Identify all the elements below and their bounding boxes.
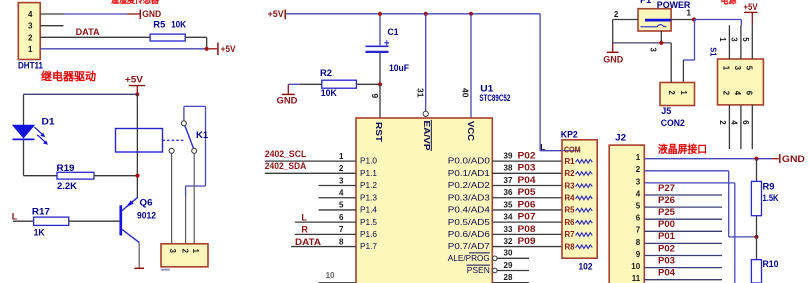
- svg-text:P03: P03: [518, 163, 536, 173]
- svg-text:P1.2: P1.2: [360, 180, 377, 190]
- svg-text:P25: P25: [658, 207, 675, 217]
- svg-text:P1.4: P1.4: [360, 205, 377, 215]
- svg-text:P00: P00: [658, 219, 675, 229]
- svg-text:8: 8: [339, 237, 344, 246]
- svg-text:1: 1: [28, 45, 33, 54]
- svg-text:P27: P27: [658, 183, 675, 193]
- svg-text:1K: 1K: [34, 227, 45, 237]
- svg-text:R: R: [301, 225, 308, 235]
- svg-text:P1.0: P1.0: [360, 156, 377, 166]
- svg-text:P07: P07: [518, 212, 536, 222]
- svg-text:+5V: +5V: [744, 2, 758, 12]
- svg-text:2402_SDA: 2402_SDA: [265, 161, 307, 171]
- svg-text:P0.2/AD2: P0.2/AD2: [448, 180, 490, 190]
- svg-text:1: 1: [721, 66, 730, 71]
- svg-text:DATA: DATA: [76, 27, 100, 37]
- svg-text:+5V: +5V: [268, 9, 284, 19]
- svg-text:PSEN: PSEN: [467, 265, 490, 275]
- svg-text:30: 30: [504, 249, 513, 258]
- svg-text:37: 37: [504, 176, 513, 185]
- svg-text:P1.3: P1.3: [360, 192, 377, 202]
- svg-text:VCC: VCC: [466, 121, 476, 141]
- svg-text:ALE/PROG: ALE/PROG: [448, 253, 490, 263]
- svg-text:4: 4: [339, 189, 344, 198]
- svg-text:36: 36: [504, 188, 513, 197]
- svg-text:C1: C1: [388, 27, 399, 37]
- svg-text:P09: P09: [518, 236, 536, 246]
- svg-text:R5: R5: [565, 206, 576, 215]
- svg-text:4: 4: [733, 91, 742, 96]
- svg-text:1: 1: [191, 249, 200, 254]
- svg-text:P04: P04: [658, 268, 675, 278]
- svg-text:6: 6: [744, 91, 753, 96]
- svg-text:P26: P26: [658, 195, 675, 205]
- svg-text:P1.7: P1.7: [360, 241, 377, 251]
- svg-text:CON2: CON2: [661, 118, 685, 128]
- svg-text:1: 1: [718, 37, 727, 42]
- svg-text:10: 10: [326, 271, 335, 280]
- svg-text:R9: R9: [763, 182, 775, 192]
- svg-text:P05: P05: [518, 187, 536, 197]
- svg-text:2: 2: [721, 91, 730, 96]
- svg-text:5: 5: [339, 201, 344, 210]
- svg-text:R8: R8: [565, 242, 576, 251]
- svg-text:3: 3: [28, 22, 33, 31]
- svg-text:33: 33: [504, 225, 513, 234]
- svg-text:+5V: +5V: [125, 75, 143, 85]
- svg-text:1: 1: [636, 153, 641, 162]
- svg-text:L: L: [301, 212, 307, 222]
- svg-text:10K: 10K: [321, 88, 337, 98]
- svg-text:3: 3: [733, 66, 742, 71]
- svg-text:4: 4: [28, 10, 33, 19]
- svg-text:RST: RST: [374, 122, 384, 143]
- svg-text:29: 29: [504, 261, 513, 270]
- svg-text:P04: P04: [518, 175, 536, 185]
- svg-text:10K: 10K: [171, 19, 186, 29]
- svg-text:R19: R19: [57, 163, 75, 173]
- svg-text:Q6: Q6: [140, 197, 153, 207]
- svg-text:P08: P08: [518, 224, 536, 234]
- svg-text:R2: R2: [565, 169, 576, 178]
- svg-text:2: 2: [667, 90, 676, 95]
- svg-text:1.5K: 1.5K: [763, 193, 779, 203]
- svg-text:3: 3: [649, 48, 658, 53]
- svg-text:L: L: [540, 142, 545, 152]
- svg-text:P0.4/AD4: P0.4/AD4: [448, 205, 490, 215]
- svg-text:GND: GND: [142, 9, 161, 19]
- svg-text:R6: R6: [565, 218, 576, 227]
- svg-text:EA/VP: EA/VP: [422, 121, 432, 151]
- svg-text:COM: COM: [564, 145, 581, 154]
- svg-text:11: 11: [632, 274, 641, 283]
- svg-text:P1: P1: [640, 0, 651, 5]
- svg-text:39: 39: [504, 152, 513, 161]
- svg-text:R5: R5: [153, 19, 165, 29]
- svg-text:R1: R1: [565, 157, 576, 166]
- svg-text:DHT11: DHT11: [18, 60, 43, 70]
- svg-text:2: 2: [636, 165, 641, 174]
- svg-text:P0.0/AD0: P0.0/AD0: [448, 156, 490, 166]
- svg-text:P0.5/AD5: P0.5/AD5: [448, 217, 490, 227]
- svg-text:R4: R4: [565, 194, 576, 203]
- svg-text:S1: S1: [709, 47, 719, 56]
- svg-text:3: 3: [729, 37, 738, 42]
- svg-text:9: 9: [370, 94, 380, 99]
- svg-text:GND: GND: [782, 154, 806, 164]
- svg-text:液晶屏接口: 液晶屏接口: [658, 142, 707, 155]
- svg-text:STC89C52: STC89C52: [479, 93, 510, 103]
- svg-text:4: 4: [729, 120, 738, 125]
- svg-text:KP2: KP2: [561, 129, 578, 139]
- svg-text:P1.6: P1.6: [360, 229, 377, 239]
- svg-text:3: 3: [339, 176, 344, 185]
- svg-text:4: 4: [636, 189, 641, 198]
- svg-text:5: 5: [744, 66, 753, 71]
- svg-text:P1.5: P1.5: [360, 217, 377, 227]
- svg-text:9: 9: [636, 250, 641, 259]
- svg-text:2: 2: [614, 10, 619, 19]
- svg-text:K1: K1: [196, 130, 209, 141]
- svg-text:38: 38: [504, 164, 513, 173]
- svg-text:40: 40: [461, 88, 471, 98]
- svg-text:2: 2: [718, 120, 727, 125]
- svg-text:P0.3/AD3: P0.3/AD3: [448, 192, 490, 202]
- svg-text:2.2K: 2.2K: [57, 181, 78, 191]
- svg-text:3: 3: [636, 177, 641, 186]
- svg-text:1: 1: [687, 9, 692, 18]
- svg-text:10: 10: [631, 262, 640, 271]
- svg-text:P0.6/AD6: P0.6/AD6: [448, 229, 490, 239]
- svg-text:10uF: 10uF: [389, 63, 409, 73]
- svg-text:6: 6: [636, 214, 641, 223]
- svg-text:P02: P02: [518, 151, 536, 161]
- svg-text:2: 2: [28, 33, 33, 42]
- svg-text:温湿度传感器: 温湿度传感器: [111, 0, 160, 6]
- svg-text:5: 5: [636, 202, 641, 211]
- svg-text:继电器驱动: 继电器驱动: [41, 69, 96, 83]
- svg-text:34: 34: [504, 213, 513, 222]
- svg-text:6: 6: [339, 213, 344, 222]
- svg-text:+5V: +5V: [221, 44, 236, 54]
- svg-text:1: 1: [339, 152, 344, 161]
- svg-text:电源: 电源: [721, 0, 737, 7]
- svg-text:8: 8: [636, 238, 641, 247]
- svg-text:5: 5: [741, 37, 750, 42]
- svg-text:P0.7/AD7: P0.7/AD7: [448, 241, 490, 251]
- svg-text:2: 2: [181, 249, 190, 254]
- svg-text:GND: GND: [277, 95, 299, 105]
- svg-text:DATA: DATA: [295, 237, 322, 247]
- svg-text:P1.1: P1.1: [360, 168, 377, 178]
- svg-text:7: 7: [339, 225, 344, 234]
- svg-text:J2: J2: [615, 133, 626, 143]
- svg-text:31: 31: [416, 88, 426, 98]
- svg-text:28: 28: [504, 273, 513, 282]
- svg-text:R7: R7: [565, 230, 576, 239]
- svg-text:R10: R10: [763, 259, 779, 269]
- svg-text:9012: 9012: [137, 210, 156, 220]
- svg-text:R3: R3: [565, 181, 576, 190]
- svg-text:J5: J5: [661, 106, 671, 116]
- svg-text:6: 6: [741, 120, 750, 125]
- svg-text:P01: P01: [658, 231, 675, 241]
- svg-text:P03: P03: [658, 255, 675, 265]
- svg-text:D1: D1: [42, 116, 55, 126]
- svg-text:2: 2: [339, 164, 344, 173]
- svg-text:32: 32: [504, 237, 513, 246]
- svg-text:R2: R2: [320, 68, 332, 78]
- svg-text:2402_SCL: 2402_SCL: [265, 149, 307, 159]
- svg-text:1: 1: [679, 90, 688, 95]
- svg-text:R17: R17: [32, 207, 50, 217]
- svg-text:P02: P02: [658, 243, 675, 253]
- svg-text:P06: P06: [518, 199, 536, 209]
- svg-text:P0.1/AD1: P0.1/AD1: [448, 168, 490, 178]
- svg-text:3: 3: [168, 249, 177, 254]
- svg-text:GND: GND: [603, 55, 624, 65]
- svg-text:L: L: [12, 212, 18, 222]
- svg-text:7: 7: [636, 226, 641, 235]
- svg-text:35: 35: [504, 200, 513, 209]
- svg-text:102: 102: [579, 261, 593, 271]
